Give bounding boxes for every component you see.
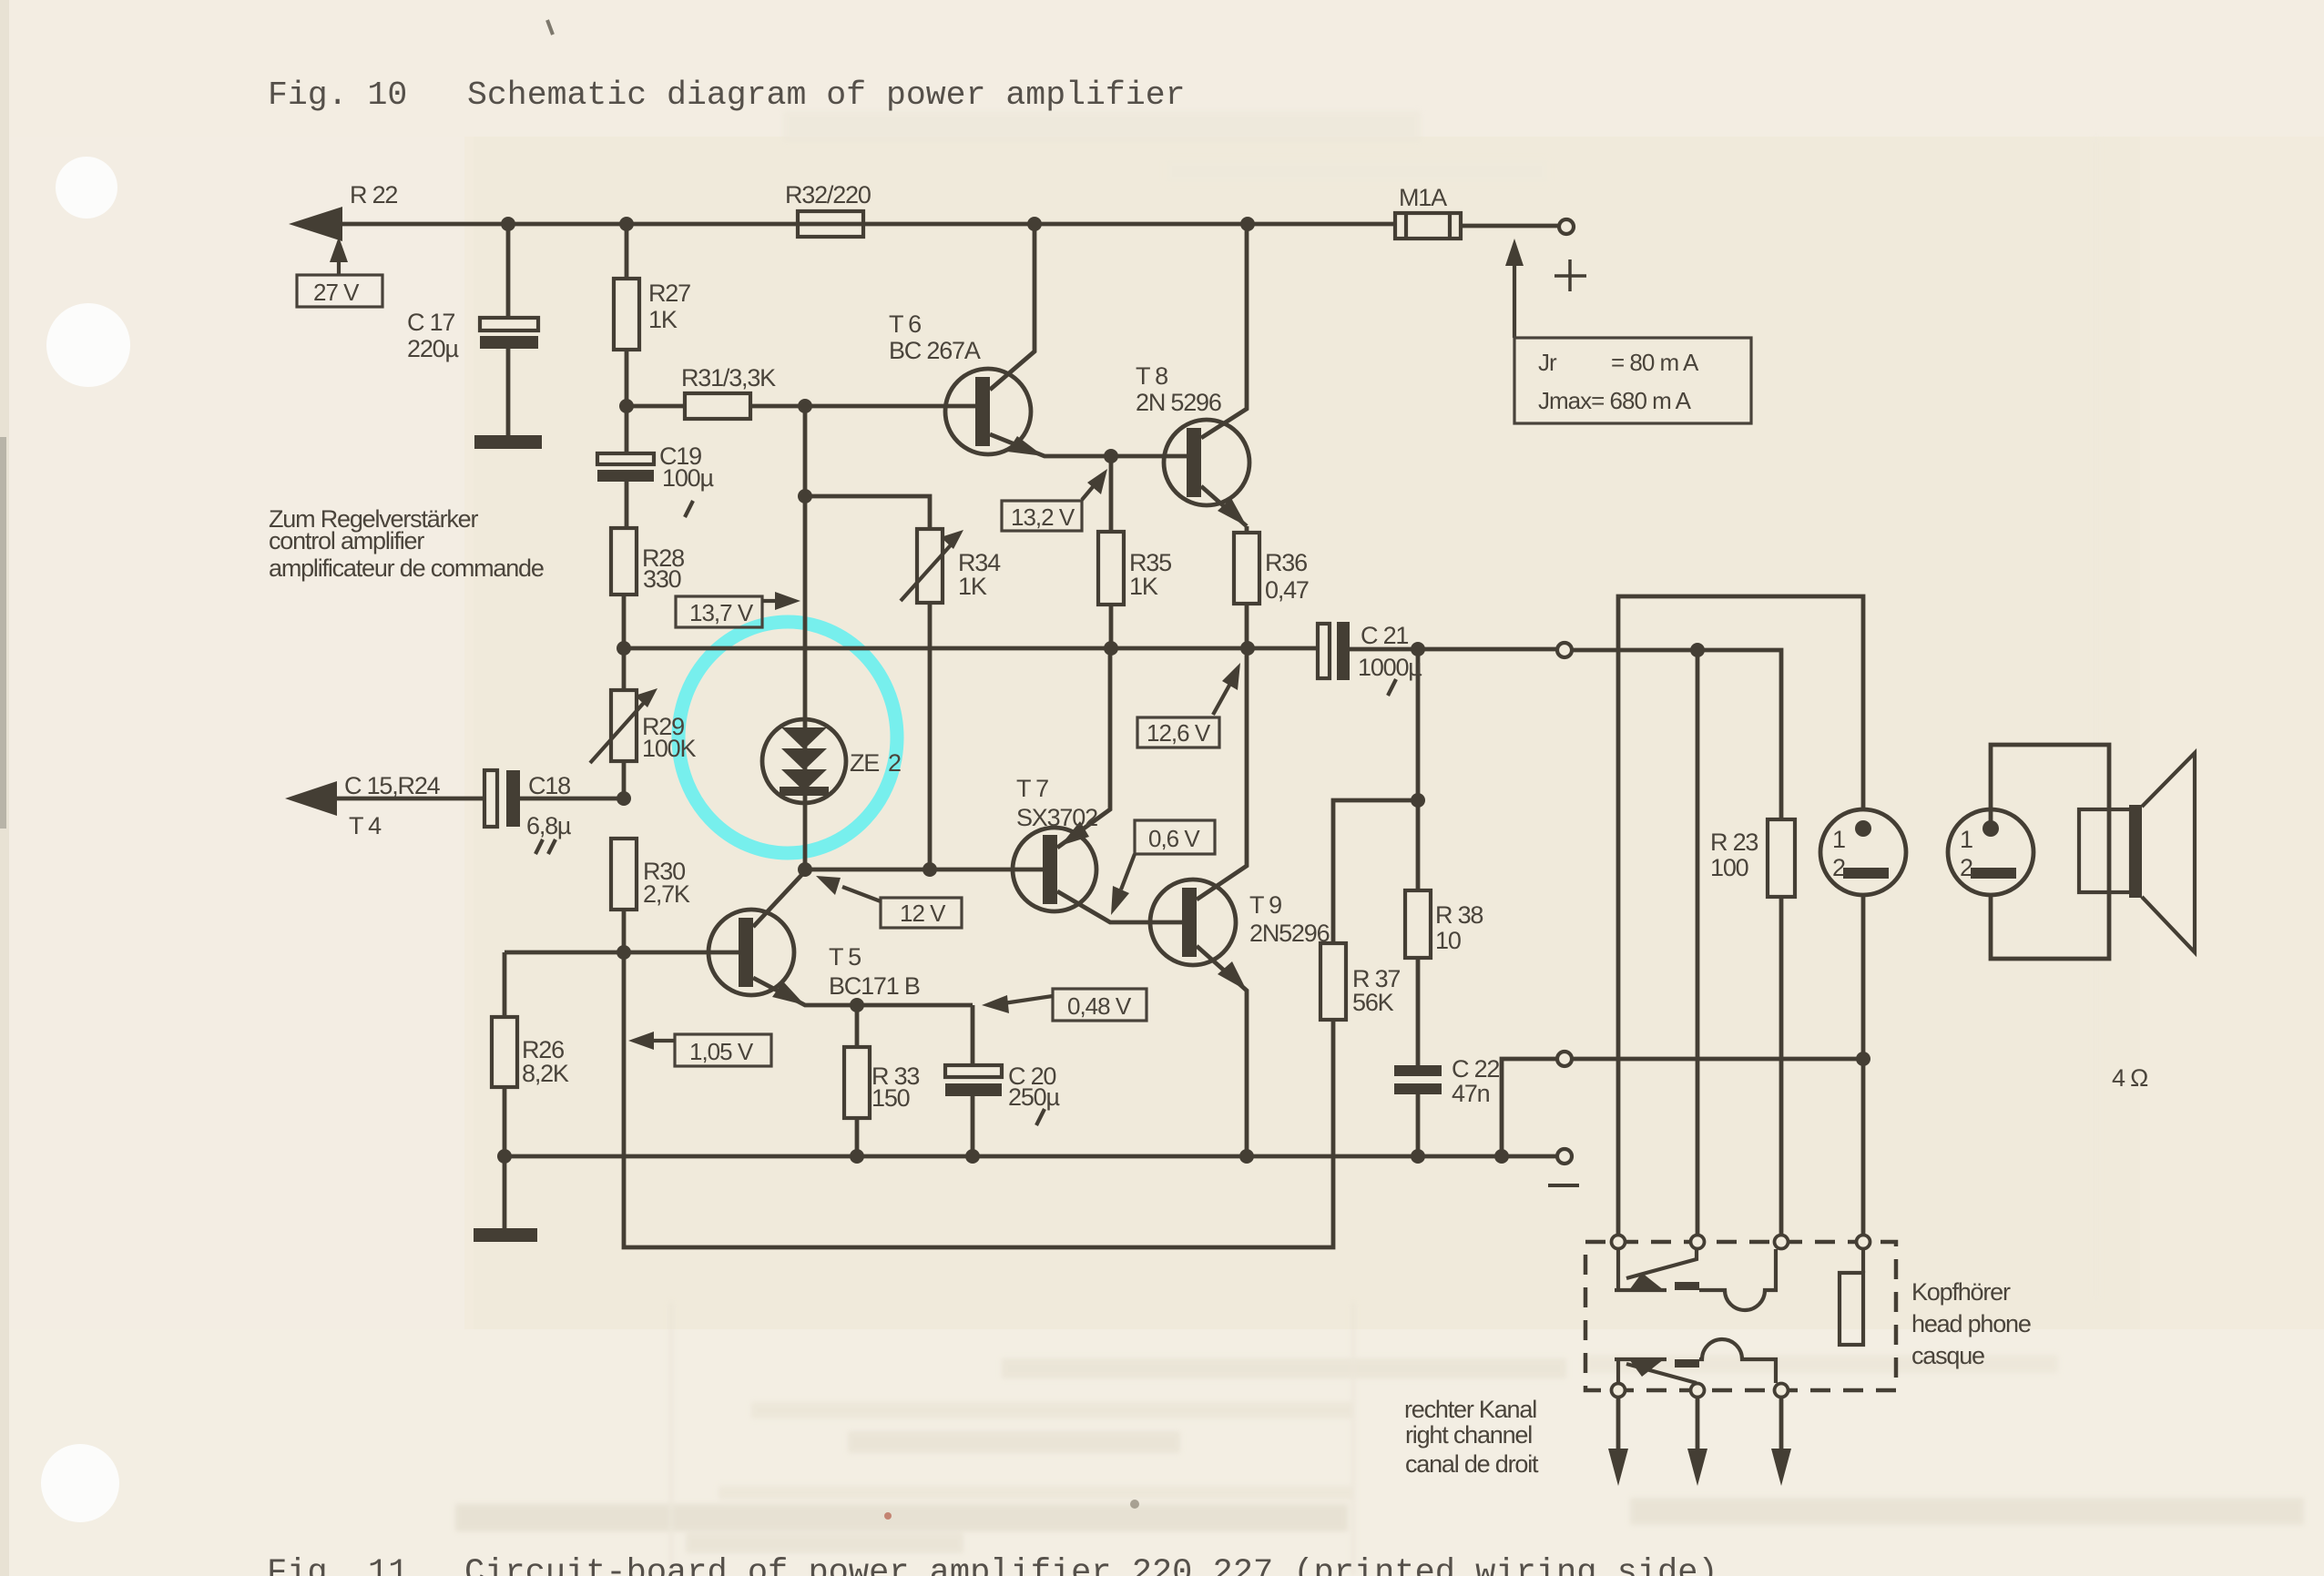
jack pin 2 top [1691,1235,1705,1249]
svg-text:C18: C18 [528,772,570,799]
svg-text:BC171 B: BC171 B [829,972,920,1000]
transistor T8 2N5296 [1164,420,1249,505]
svg-text:2: 2 [888,749,901,777]
svg-text:2N 5296: 2N 5296 [1136,389,1221,416]
capacitor C21 on mid rail [1318,624,1330,678]
wire jack line down [1696,650,1700,1235]
resistor R32/220 [798,211,863,237]
terminal circle mid rail [1557,643,1572,657]
node R34 feed [798,489,812,503]
jack switch upper [1615,1249,1667,1290]
resistor R26 [503,952,507,1156]
node R34 bottom [922,862,937,877]
fuse M1A [1395,213,1461,239]
wire T7 base line [805,868,1043,872]
svg-text:8,2K: 8,2K [522,1060,569,1087]
DIN connector 2 [1948,809,2033,895]
svg-text:2N5296: 2N5296 [1249,920,1330,947]
punch hole top [56,157,117,219]
resistor R23 [1768,819,1795,897]
node jack line [1690,643,1705,657]
svg-text:1K: 1K [958,573,987,600]
svg-text:47n: 47n [1452,1080,1490,1107]
wire speaker loop rectangle [1618,596,1863,1235]
0,6V value box with arrow [1135,820,1215,854]
wire mid rail right of C21 [1350,649,1781,819]
svg-text:R32/220: R32/220 [785,181,871,208]
12,6V value box with arrow [1137,717,1219,747]
node mid rail left [617,641,631,656]
resistor R36 [1245,526,1249,648]
13,7V value box with arrow [676,596,762,627]
svg-text:Fig. 11: Fig. 11 [267,1554,408,1576]
svg-text:1: 1 [1960,826,1972,853]
node mid rail at R35 [1104,641,1118,656]
svg-text:= 80 m A: = 80 m A [1611,349,1699,376]
svg-text:R 23: R 23 [1710,829,1758,856]
node C18 junction [617,791,631,806]
node rail jack stub [1494,1149,1509,1164]
resistor R27 [625,224,629,406]
transistor T6 BC267A [945,369,1031,454]
svg-text:330: 330 [643,565,681,593]
svg-text:12 V: 12 V [900,900,946,927]
transistor T9 2N5296 [1150,880,1236,965]
svg-text:control amplifier: control amplifier [269,527,424,554]
zener stack ZE2 [762,719,846,803]
rheostat R29 [622,648,627,798]
node on rail at R27 [619,217,634,231]
punch hole bottom [41,1444,119,1522]
pointer arrow to Jr box [1513,257,1516,338]
svg-text:R27: R27 [648,280,690,307]
transistor T7 SX3702 [1013,828,1096,911]
svg-text:2,7K: 2,7K [643,880,690,908]
svg-text:T 7: T 7 [1016,775,1048,802]
node on rail at T6 collector [1027,217,1042,231]
jack pin 1 top [1612,1235,1626,1249]
svg-text:Kopfhörer: Kopfhörer [1911,1278,2011,1306]
svg-text:BC 267A: BC 267A [889,337,981,364]
terminal + output circle [1559,219,1574,234]
DIN connector 1 [1820,809,1906,895]
arrow to R22 (left output) [289,207,342,241]
svg-text:4 Ω: 4 Ω [2112,1064,2148,1092]
resistor R35 [1109,456,1114,648]
svg-text:C 15,R24: C 15,R24 [344,772,441,799]
svg-text:100K: 100K [642,735,696,762]
svg-text:R 22: R 22 [350,181,397,208]
resistor R31/3,3K [685,393,750,419]
wire R31 line to T6 base [627,404,978,409]
svg-text:220µ: 220µ [407,335,458,362]
svg-text:R 38: R 38 [1435,901,1483,929]
minus symbol [1548,1184,1579,1187]
wire ZE2 branch vertical [803,406,808,869]
svg-text:Jmax= 680 m A: Jmax= 680 m A [1538,387,1692,414]
wire C22 stub to jack row [1502,1059,1863,1156]
jack arrow down 2 [1696,1398,1700,1450]
svg-text:canal de droit: canal de droit [1405,1450,1539,1478]
node bottom rail left end [497,1149,512,1164]
svg-text:C 22: C 22 [1452,1055,1499,1083]
jack pin 4 top [1857,1235,1870,1249]
svg-text:rechter Kanal: rechter Kanal [1404,1396,1536,1423]
node DIN1 bottom line [1856,1052,1870,1066]
svg-text:Circuit-board of power amplifi: Circuit-board of power amplifier 220 227… [464,1554,1718,1576]
headphone element resistor [1861,1250,1865,1273]
jack arrow down 1 [1616,1398,1621,1450]
svg-text:casque: casque [1911,1342,1984,1369]
bleed-through ghosts (decorative) [455,111,2304,1576]
node T7 base / ZE2 bottom [798,862,812,877]
jack pin 3 top [1775,1235,1789,1249]
arrow to C15,R24 T4 (left) [285,781,337,816]
svg-text:1K: 1K [1129,573,1158,600]
resistor R30 [611,839,637,910]
svg-text:150: 150 [871,1084,910,1112]
svg-text:T 8: T 8 [1136,362,1167,390]
jack arrow down 3 [1779,1398,1784,1450]
node rail C20 [965,1149,980,1164]
node R38 top [1411,793,1425,808]
svg-text:10: 10 [1435,927,1461,954]
jack pin 3 bottom [1775,1384,1789,1398]
plus symbol [1554,259,1586,291]
svg-text:ZE: ZE [850,749,879,777]
node rail R33 [850,1149,864,1164]
rheostat R34 [805,496,930,869]
resistor R33 [855,1005,860,1156]
node rail C22 [1411,1149,1425,1164]
svg-text:R31/3,3K: R31/3,3K [681,364,776,391]
capacitor C18 [484,770,497,827]
svg-text:1K: 1K [648,306,678,333]
stray mark top [547,20,553,35]
svg-text:0,47: 0,47 [1265,576,1309,604]
jack pin 2 bottom [1691,1384,1705,1398]
27V pointer arrow [337,251,341,275]
speaker [2079,809,2131,892]
svg-text:C 21: C 21 [1361,622,1408,649]
svg-text:SX3702: SX3702 [1016,804,1097,831]
capacitor C20 [971,1005,975,1156]
resistor R28 [611,528,637,595]
27V value box [297,275,382,307]
svg-text:13,7 V: 13,7 V [689,599,754,626]
svg-text:Schematic diagram of power amp: Schematic diagram of power amplifier [467,76,1186,114]
transistor T5 BC171B [708,910,794,995]
node C21 right / R38 [1411,642,1425,656]
12V value box with arrow [881,898,962,928]
node on rail at T8 collector [1240,217,1255,231]
capacitor C17 [506,224,511,435]
speck red [884,1512,892,1520]
svg-text:T 5: T 5 [829,943,861,971]
node T5 base junction [617,945,631,960]
svg-text:C 17: C 17 [407,309,454,336]
svg-text:0,48 V: 0,48 V [1067,992,1132,1020]
wire bottom negative rail [505,1154,1557,1159]
svg-text:100µ: 100µ [662,464,713,492]
node R31 junction [619,399,634,413]
node T5 emitter / R33 [850,998,864,1012]
node rail T9 emitter [1239,1149,1254,1164]
svg-text:1: 1 [1832,826,1845,853]
capacitor C19 [625,406,629,528]
svg-text:1,05 V: 1,05 V [689,1038,754,1065]
ground below R26 [503,1156,507,1228]
svg-text:R36: R36 [1265,549,1307,576]
node ZE2 top branch [798,399,812,413]
node T6 emitter / T8 base / R35 [1104,449,1118,463]
svg-text:2: 2 [1832,854,1845,881]
svg-text:6,8µ: 6,8µ [526,812,571,839]
svg-text:Jr: Jr [1538,349,1557,376]
svg-text:Fig. 10: Fig. 10 [268,76,407,114]
svg-text:2: 2 [1960,854,1972,881]
resistor R37 [1320,943,1346,1020]
svg-text:1000µ: 1000µ [1358,654,1422,681]
jack switch lower [1615,1359,1667,1383]
wire mid rail [624,646,1318,651]
svg-text:250µ: 250µ [1008,1083,1059,1111]
svg-text:amplificateur de commande: amplificateur de commande [269,554,544,582]
13,2V value box with arrow [1002,501,1082,531]
svg-text:head phone: head phone [1911,1310,2031,1337]
terminal minus circle [1557,1149,1572,1164]
1,05V value box with arrow [675,1034,771,1066]
svg-text:T 9: T 9 [1249,891,1281,919]
wire speaker connections [1991,745,2109,959]
jack pin 1 bottom [1612,1384,1626,1398]
svg-text:12,6 V: 12,6 V [1147,719,1211,747]
svg-text:13,2 V: 13,2 V [1011,503,1075,531]
svg-text:T 4: T 4 [349,812,382,839]
svg-text:56K: 56K [1352,989,1394,1016]
node on rail at C17 [501,217,515,231]
speck dark [1130,1500,1139,1509]
svg-text:M1A: M1A [1399,184,1447,211]
wire top rail [341,224,1558,226]
Jr current values box [1514,338,1751,423]
punch hole middle [46,303,130,387]
svg-text:0,6 V: 0,6 V [1148,825,1200,852]
capacitor C22 [1394,1065,1442,1076]
svg-text:100: 100 [1710,854,1748,881]
terminal circle on jack row [1557,1052,1572,1066]
node mid rail at R36 [1240,641,1255,656]
resistor R38 [1416,648,1421,1065]
svg-text:right channel: right channel [1405,1421,1532,1449]
wire T5 base line [505,951,739,955]
headphone jack dashed box [1585,1242,1896,1390]
wire DIN1 vertical [1861,895,1866,1235]
wire feedback loop [624,952,1333,1247]
svg-text:27 V: 27 V [313,279,360,306]
ground below C17 [474,435,542,449]
0,48V value box with arrow [1053,989,1147,1021]
svg-text:T 6: T 6 [889,310,921,338]
cyan highlight circle around ZE2 [678,622,897,853]
